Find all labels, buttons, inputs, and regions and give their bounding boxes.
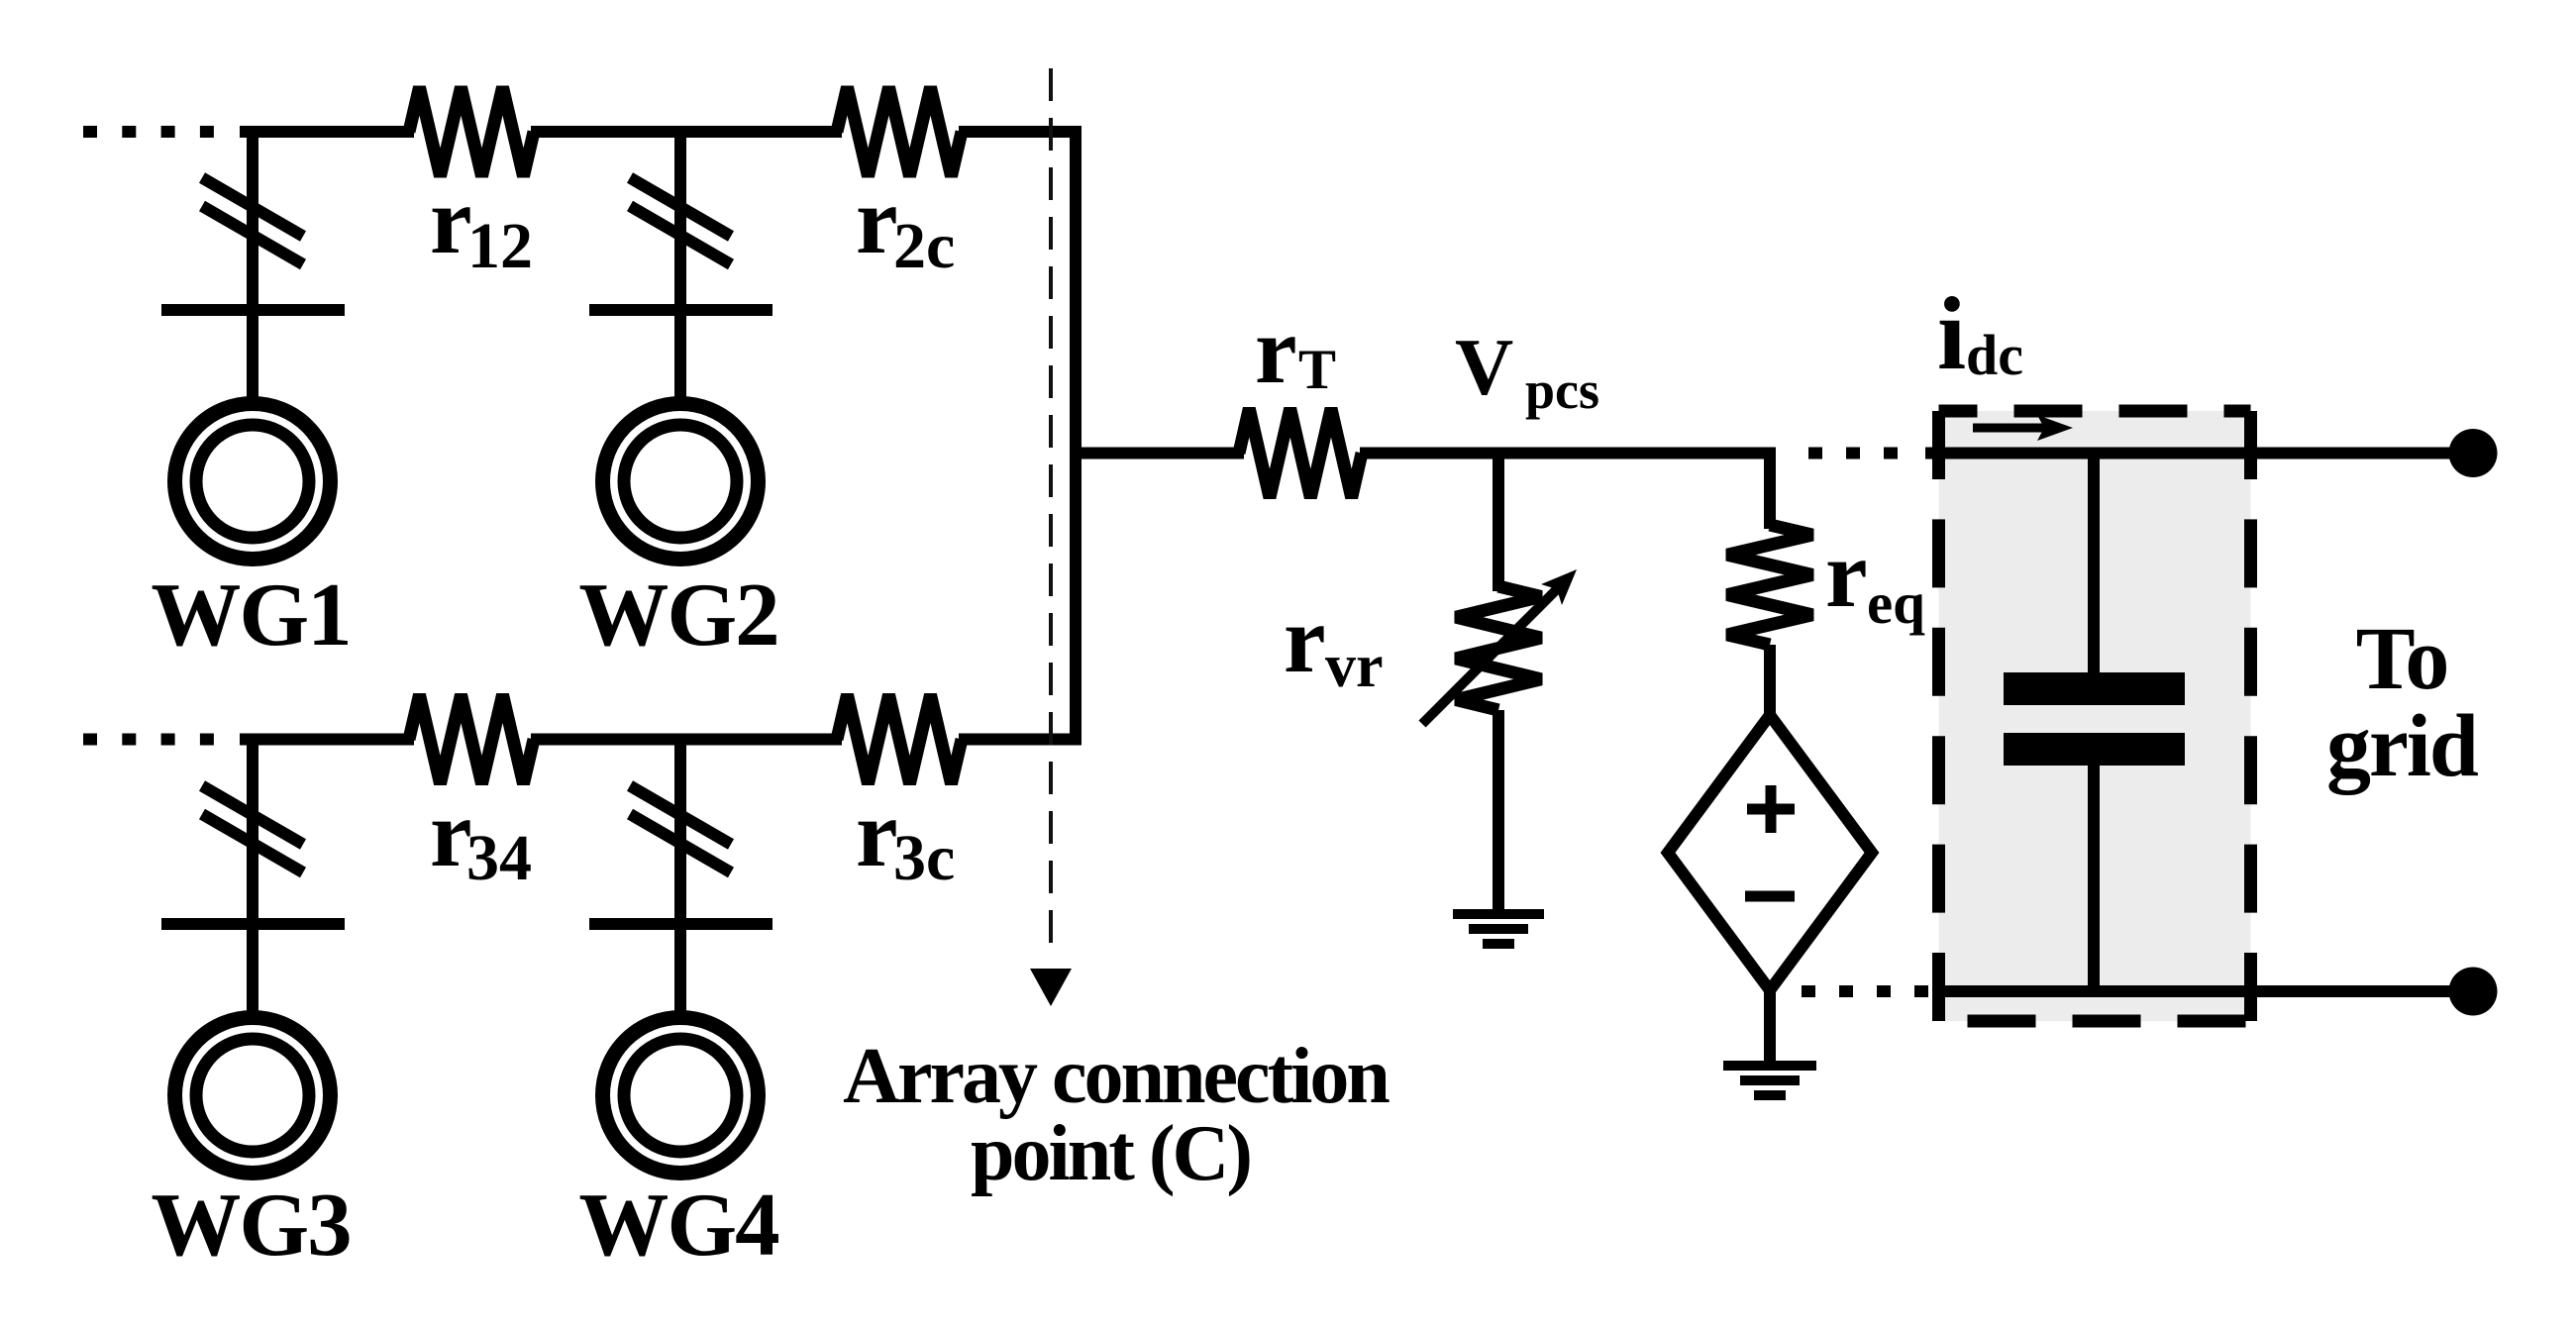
wire: source dotted continuation to PCS block (bottom) bbox=[1802, 985, 1929, 997]
current idc arrow bbox=[1973, 415, 2073, 441]
generator WG4 (double circle) bbox=[603, 1018, 759, 1174]
svg-text:r: r bbox=[430, 167, 472, 273]
wire: bottom feeder segment WG3-r34 bbox=[240, 734, 414, 746]
svg-text:Array connection: Array connection bbox=[843, 1033, 1390, 1120]
generator WG2 (double circle) bbox=[603, 404, 759, 560]
label r2c bbox=[856, 167, 955, 282]
wire: WG2 stub bbox=[674, 126, 686, 404]
wire: bottom feeder segment r34-WG4 bbox=[531, 734, 842, 746]
busbar tick WG3 bbox=[161, 918, 345, 930]
label node Vpcs bbox=[1455, 322, 1599, 420]
wire: rT to Vpcs node to req corner bbox=[1360, 454, 1770, 530]
terminal dot (bottom) bbox=[2449, 968, 2498, 1016]
resistor r34 bbox=[409, 695, 534, 784]
ground (dependent source) bbox=[1723, 1066, 1816, 1095]
wire: top feeder segment WG1-r12 bbox=[240, 126, 414, 138]
wire: bus to rT bbox=[1070, 448, 1244, 460]
wire: Vpcs junction down to rvr bbox=[1493, 448, 1504, 592]
wire: top feeder segment r12-WG2 bbox=[531, 126, 842, 138]
dependent source + sign bbox=[1747, 785, 1795, 833]
label rvr bbox=[1284, 586, 1384, 700]
label r3c bbox=[856, 780, 955, 894]
svg-text:r: r bbox=[1825, 521, 1868, 627]
variable resistor rvr bbox=[1456, 586, 1541, 710]
wire: Vpcs dotted continuation to PCS block bbox=[1808, 448, 1906, 460]
svg-text:grid: grid bbox=[2326, 697, 2479, 795]
capacitor bottom lead bbox=[2088, 763, 2100, 991]
generator WG1 (double circle) bbox=[175, 404, 331, 560]
busbar tick WG1 bbox=[161, 304, 345, 316]
transformer WG3 double-slash marks bbox=[202, 786, 303, 873]
wire: PCS top rail to grid terminal bbox=[1925, 448, 2454, 460]
label r34 bbox=[430, 780, 532, 894]
wire: top feeder dotted continuation bbox=[83, 126, 218, 138]
svg-text:12: 12 bbox=[467, 210, 533, 282]
svg-text:WG2: WG2 bbox=[578, 564, 777, 665]
svg-text:To: To bbox=[2356, 610, 2448, 708]
busbar tick WG2 bbox=[589, 304, 773, 316]
svg-text:WG3: WG3 bbox=[151, 1175, 350, 1275]
label: To grid bbox=[2326, 610, 2479, 795]
svg-text:i: i bbox=[1937, 275, 1966, 391]
resistor r2c bbox=[837, 87, 962, 176]
resistor r12 bbox=[409, 87, 534, 176]
node C: cut line arrowhead bbox=[1030, 969, 1072, 1006]
wire: WG4 stub bbox=[674, 734, 686, 1019]
svg-text:dc: dc bbox=[1966, 323, 2023, 387]
wire: rvr to ground bbox=[1493, 710, 1504, 914]
svg-text:34: 34 bbox=[466, 822, 532, 894]
busbar tick WG4 bbox=[589, 918, 773, 930]
svg-text:WG4: WG4 bbox=[578, 1175, 778, 1275]
wire: WG3 stub bbox=[247, 734, 258, 1019]
wire: PCS bottom rail to grid terminal bbox=[1938, 985, 2454, 997]
wire: bottom feeder dotted continuation bbox=[83, 734, 218, 746]
resistor r3c bbox=[837, 695, 962, 784]
svg-text:3c: 3c bbox=[893, 822, 955, 894]
wire: WG1 stub bbox=[247, 126, 258, 404]
generator WG3 (double circle) bbox=[175, 1018, 331, 1174]
dependent source (diamond) bbox=[1668, 715, 1872, 990]
svg-text:eq: eq bbox=[1867, 570, 1925, 636]
terminal dot (top) bbox=[2449, 429, 2498, 477]
capacitor bottom plate bbox=[2004, 733, 2185, 766]
wire: dependent source to ground bbox=[1764, 984, 1776, 1066]
resistor req bbox=[1727, 525, 1812, 645]
svg-text:r: r bbox=[856, 780, 898, 886]
wire: top feeder to bus corner, bus down to bottom feeder bbox=[959, 132, 1076, 746]
svg-text:r: r bbox=[1255, 297, 1297, 403]
svg-text:pcs: pcs bbox=[1525, 360, 1599, 420]
label req bbox=[1825, 521, 1925, 636]
svg-text:r: r bbox=[856, 167, 898, 273]
transformer WG4 double-slash marks bbox=[630, 786, 731, 873]
label idc bbox=[1937, 275, 2023, 391]
resistor rT bbox=[1239, 409, 1362, 498]
svg-text:point (C): point (C) bbox=[971, 1110, 1250, 1197]
wire: req to dependent source bbox=[1764, 645, 1776, 721]
transformer WG1 double-slash marks bbox=[202, 178, 303, 265]
label: Array connection point (C) bbox=[843, 1033, 1390, 1197]
svg-text:vr: vr bbox=[1325, 633, 1384, 700]
capacitor top lead bbox=[2088, 454, 2100, 677]
transformer WG2 double-slash marks bbox=[630, 178, 731, 265]
dependent source - sign bbox=[1745, 891, 1795, 902]
wire: bottom feeder to bus bbox=[959, 734, 1076, 746]
svg-text:T: T bbox=[1298, 339, 1336, 401]
ground (rvr branch) bbox=[1453, 914, 1544, 944]
svg-text:WG1: WG1 bbox=[151, 564, 350, 665]
variable resistor rvr arrow bbox=[1422, 569, 1577, 724]
svg-text:V: V bbox=[1455, 322, 1513, 412]
PCS block dashed box bbox=[1939, 411, 2251, 1021]
label rT bbox=[1255, 297, 1336, 403]
svg-text:r: r bbox=[1284, 586, 1326, 692]
capacitor top plate bbox=[2004, 672, 2185, 705]
label r12 bbox=[430, 167, 533, 282]
svg-text:2c: 2c bbox=[893, 210, 955, 282]
node C: array connection point dashed cut line bbox=[1049, 68, 1053, 953]
